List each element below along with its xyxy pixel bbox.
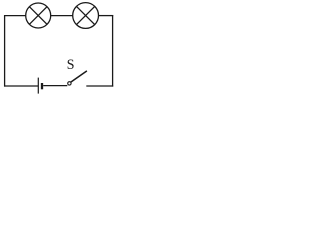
wire bottom-left segment xyxy=(4,85,38,87)
wire battery to switch xyxy=(43,85,67,87)
wire top-left segment xyxy=(5,15,26,17)
wire bottom-right segment xyxy=(86,85,113,87)
battery short plate (-) xyxy=(41,83,43,89)
lamp L2 xyxy=(73,3,99,29)
label S xyxy=(68,60,74,69)
lamp L1 xyxy=(26,3,51,28)
wire top-right segment xyxy=(99,15,114,17)
wire between lamps xyxy=(51,15,73,17)
switch S pivot circle xyxy=(68,82,71,85)
wire right side xyxy=(112,15,114,87)
wire left side xyxy=(4,15,6,87)
battery long plate (+) xyxy=(37,78,39,94)
switch S blade xyxy=(71,71,87,82)
